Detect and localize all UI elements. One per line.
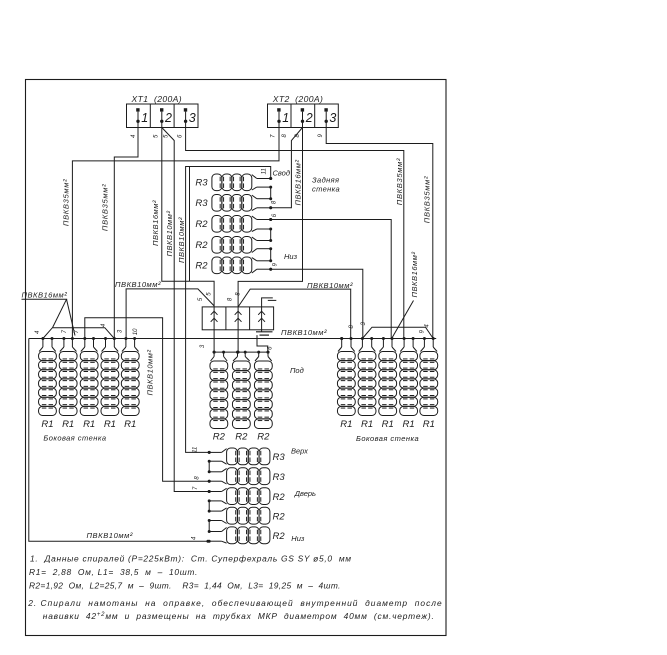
junction dots [206,177,343,543]
svg-text:Задняя: Задняя [312,175,339,184]
svg-text:стенка: стенка [312,184,340,193]
resistor R1 right side wall 3 [379,339,397,416]
svg-text:2. Спирали намотаны на опра: 2. Спирали намотаны на оправке, обеспечи… [27,598,443,608]
svg-text:ПВКВ16мм²: ПВКВ16мм² [293,160,302,206]
wire 6 from rear-wall R2 row to right side-wall bus [271,220,392,339]
svg-text:ХТ2 (200А): ХТ2 (200А) [272,94,324,104]
svg-text:R3: R3 [195,178,208,189]
wire from node 11 down to block cell 1 feed line [189,167,191,282]
resistor R3 rear wall row 2 [212,195,271,212]
resistor R1 right side wall 1 [337,339,355,416]
svg-text:R1: R1 [340,419,352,430]
connection block [202,307,273,330]
bridge wire on left side-wall bus [43,328,114,339]
svg-text:R3: R3 [195,198,208,209]
svg-text:R1: R1 [62,419,74,430]
resistor R2 rear wall row 4 [212,237,271,254]
terminal XT2 pin 2 [301,108,313,127]
wire from left side-wall bus to door bank row 2 [85,318,209,481]
open tap symbol at block cell 3 [262,298,277,307]
svg-text:ПВКВ16мм²: ПВКВ16мм² [22,291,68,300]
hearth bus wire [214,351,268,353]
svg-text:Низ: Низ [291,534,305,543]
resistor R2 hearth 1 [210,352,228,428]
svg-text:R1: R1 [361,419,373,430]
svg-text:R1: R1 [403,419,415,430]
resistor R2 door bank row 4 [209,507,270,524]
wire numbers on right bus [349,321,430,333]
svg-text:Боковая стенка: Боковая стенка [43,434,106,443]
jumper wire door rows 4-5 [208,521,210,532]
svg-text:ПВКВ10мм²: ПВКВ10мм² [281,328,327,337]
block cell 3 arrows [258,307,265,330]
svg-text:R2: R2 [235,432,248,443]
terminal block XT1 [127,104,199,128]
svg-text:R2=1,92 Ом, L2=25,7 м – 9: R2=1,92 Ом, L2=25,7 м – 9шт. R3= 1,44 Ом… [29,580,341,590]
resistor R1 left side wall 3 [80,339,98,416]
wire 6 from XT1-3 to right side-wall bus [186,128,404,339]
jumper wire rear-wall rows 3-4 [270,229,272,241]
svg-text:ПВКВ35мм²: ПВКВ35мм² [61,179,70,226]
svg-text:Верх: Верх [291,446,308,455]
wire 5 from XT1-2 to block cell 1 [162,128,214,307]
svg-text:R1: R1 [83,419,95,430]
svg-text:R1= 2,88 Ом, L1= 38,5 м –: R1= 2,88 Ом, L1= 38,5 м – 10шт. [29,567,198,577]
resistor R1 left side wall 2 [59,339,77,416]
svg-text:R2: R2 [273,492,286,503]
terminal XT1 pin 3 [184,108,196,127]
svg-text:ПВКВ16мм²: ПВКВ16мм² [151,200,160,246]
svg-text:1: 1 [141,111,148,125]
side-wall bus wire [29,338,436,340]
svg-text:R2: R2 [195,219,208,230]
resistor R2 hearth 3 [254,352,272,428]
svg-text:3: 3 [189,111,196,125]
resistor R2 rear wall row 3 [212,216,271,233]
resistor R1 right side wall 2 [358,339,376,416]
svg-text:Боковая стенка: Боковая стенка [356,434,419,443]
svg-text:R2: R2 [273,531,286,542]
svg-text:3: 3 [329,111,336,125]
resistor R2 hearth 2 [232,352,250,428]
resistor R3 door bank row 2 [209,468,270,485]
drawing border frame [26,80,447,636]
wire 8 branch from XT2-2 to rear-wall R3 row [271,128,303,208]
terminal XT1 pin 2 [160,108,172,127]
svg-text:ПВКВ35мм²: ПВКВ35мм² [423,176,432,223]
wire 9 from XT2-3 to right side-wall bus [326,128,433,339]
svg-text:ПВКВ10мм²: ПВКВ10мм² [307,281,353,290]
terminal XT2 pin 3 [324,108,336,127]
svg-text:ПВКВ10мм²: ПВКВ10мм² [165,211,174,257]
wire 8 from block cell 2 to right side-wall bus [238,289,351,338]
terminal block XT2 [268,104,339,128]
svg-text:ПВКВ35мм²: ПВКВ35мм² [100,184,109,231]
resistor R1 left side wall 1 [39,339,57,416]
terminal XT1 pin 1 [136,108,148,127]
svg-text:ПВКВ16мм²: ПВКВ16мм² [410,252,419,298]
wire 8 from XT2-2 to block cell 2 [238,128,302,307]
svg-text:R1: R1 [104,419,116,430]
ground symbol under block cell 3 [256,330,273,335]
resistor R3 door bank row 1 [209,448,270,465]
svg-text:ХТ1 (200А): ХТ1 (200А) [131,94,183,104]
svg-text:ПВКВ10мм²: ПВКВ10мм² [115,280,161,289]
resistor R3 rear wall row 1 [212,174,271,191]
svg-text:11: 11 [262,168,268,174]
wire 7 from XT2-1 to left side-wall bus [72,128,279,339]
wire 5 from block cell 1 to left side-wall bus [126,289,214,339]
resistor R1 right side wall 5 [420,339,438,416]
wire from block cell 2 to hearth bus [237,330,239,352]
svg-text:10: 10 [133,328,139,335]
wire from ground bar to hearth bus [257,335,268,352]
svg-text:R3: R3 [273,472,286,483]
svg-text:Свод: Свод [273,169,290,178]
bridge wire on right side-wall bus [362,327,433,338]
terminal XT2 pin 1 [277,108,289,127]
svg-text:Низ: Низ [284,252,298,261]
label ПВКВ16мм2 with leaders at left bus [22,291,76,336]
wire from block cell 1 to hearth bus [213,330,215,352]
svg-text:R3: R3 [273,452,286,463]
svg-text:R1: R1 [124,419,136,430]
svg-text:R2: R2 [213,432,226,443]
resistor R1 right side wall 4 [400,339,418,416]
svg-text:1: 1 [282,111,289,125]
svg-text:R1: R1 [423,419,435,430]
label Задняя стенка [312,175,340,193]
svg-text:11: 11 [193,447,199,453]
jumper wire door rows 3-4 [208,501,210,511]
svg-text:2: 2 [164,111,172,125]
svg-text:R1: R1 [41,419,53,430]
resistor R1 left side wall 5 [121,339,139,416]
svg-text:ПВКВ10мм²: ПВКВ10мм² [145,350,154,396]
svg-text:ПВКВ10мм²: ПВКВ10мм² [177,217,186,263]
resistor R2 door bank row 3 [209,488,270,505]
block cell 2 arrows [235,307,242,330]
resistor R1 left side wall 4 [101,339,119,416]
wire 4 from bus left end to bottom row [29,339,208,542]
svg-text:R2: R2 [257,432,270,443]
jumper wire door rows 1-2 [208,461,210,472]
label ПВКВ16мм2 right with leader [392,252,419,339]
svg-text:2: 2 [305,111,313,125]
svg-text:Под: Под [290,366,304,375]
jumper wire rear-wall rows 4-5 [270,249,272,261]
svg-text:R2: R2 [195,261,208,272]
svg-text:R2: R2 [195,240,208,251]
jumper wire rear-wall rows 1-2 [270,187,272,199]
wire 9 from rear-wall bottom row to right side-wall bus [271,269,363,338]
svg-text:1. Данные спиралей (Р=225кВт): 1. Данные спиралей (Р=225кВт): Ст. Супер… [30,554,352,564]
block cell 1 arrows [211,307,218,330]
resistor R2 rear wall row 5 [212,257,271,274]
svg-text:R2: R2 [273,512,286,523]
resistor R2 door bank row 5 [209,527,270,544]
wire 4 from XT1-1 to side-wall bus [114,128,138,339]
svg-text:ПВКВ10мм²: ПВКВ10мм² [87,531,133,540]
svg-text:ПВКВ35мм²: ПВКВ35мм² [395,158,404,205]
svg-text:Дверь: Дверь [294,489,316,498]
wire 11 from rear-wall top row down to top row of door bank [186,167,271,453]
svg-text:R1: R1 [382,419,394,430]
wire numbers on left bus [35,323,139,335]
wire 5 branch from XT1-2 down to door row [162,128,209,492]
